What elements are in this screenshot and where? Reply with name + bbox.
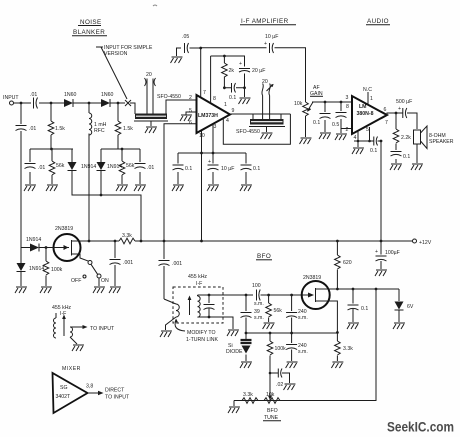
svg-text:DIRECT: DIRECT <box>105 388 125 394</box>
svg-text:AUDIO: AUDIO <box>367 18 389 25</box>
svg-text:.01: .01 <box>147 165 154 171</box>
svg-text:4: 4 <box>354 135 357 141</box>
svg-text:8: 8 <box>213 96 216 102</box>
svg-text:I-F: I-F <box>196 281 202 287</box>
svg-text:20: 20 <box>262 79 268 85</box>
svg-text:s.m.: s.m. <box>254 301 264 307</box>
svg-text:100: 100 <box>252 283 261 289</box>
svg-text:I-F: I-F <box>60 311 66 317</box>
svg-text:BFO: BFO <box>257 253 271 260</box>
svg-text:+12V: +12V <box>419 240 432 246</box>
svg-text:+: + <box>398 106 401 112</box>
svg-text:6V: 6V <box>407 304 414 310</box>
svg-text:10k: 10k <box>294 101 303 107</box>
svg-text:MODIFY TO: MODIFY TO <box>187 330 216 336</box>
svg-text:SeekIC.com: SeekIC.com <box>387 419 454 435</box>
svg-text:10 µF: 10 µF <box>221 166 234 172</box>
svg-text:+: + <box>264 41 267 47</box>
svg-text:5: 5 <box>366 127 369 133</box>
svg-text:1N60: 1N60 <box>64 92 77 98</box>
svg-text:s.m.: s.m. <box>298 349 308 355</box>
svg-text:LM373H: LM373H <box>198 113 218 119</box>
svg-text:1N914: 1N914 <box>29 266 44 272</box>
svg-text:0.1: 0.1 <box>370 148 377 154</box>
svg-text:.05: .05 <box>182 34 189 40</box>
svg-text:10 µF: 10 µF <box>265 34 278 40</box>
svg-text:380N-8: 380N-8 <box>357 111 374 117</box>
svg-text:DIODE: DIODE <box>226 349 243 355</box>
svg-text:+: + <box>208 159 211 165</box>
svg-text:SG: SG <box>60 385 68 391</box>
svg-text:100µF: 100µF <box>385 250 400 256</box>
svg-text:100k: 100k <box>51 267 63 273</box>
svg-text:4: 4 <box>226 118 229 124</box>
svg-text:8: 8 <box>346 104 349 110</box>
svg-text:2: 2 <box>189 95 192 101</box>
svg-text:56k: 56k <box>126 163 135 169</box>
svg-text:56k: 56k <box>56 163 65 169</box>
svg-text:20: 20 <box>146 72 152 78</box>
svg-text:SFO-4550: SFO-4550 <box>157 94 181 100</box>
svg-text:1-TURN LINK: 1-TURN LINK <box>186 337 219 343</box>
svg-text:1N914: 1N914 <box>26 237 41 243</box>
svg-text:10k: 10k <box>266 392 275 398</box>
svg-text:2N3819: 2N3819 <box>55 226 73 232</box>
svg-text:.001: .001 <box>123 260 133 266</box>
svg-text:TUNE: TUNE <box>264 415 279 421</box>
svg-text:3402T: 3402T <box>56 394 72 400</box>
svg-text:.01: .01 <box>38 165 45 171</box>
svg-text:6: 6 <box>189 120 192 126</box>
svg-text:1.5k: 1.5k <box>55 126 65 132</box>
svg-text:.01: .01 <box>30 92 37 98</box>
svg-text:1: 1 <box>370 96 373 102</box>
svg-text:2N3819: 2N3819 <box>303 275 321 281</box>
svg-text:455 kHz: 455 kHz <box>188 274 207 280</box>
svg-text:1: 1 <box>224 102 227 108</box>
svg-text:500 µF: 500 µF <box>396 99 412 105</box>
svg-text:0.1: 0.1 <box>253 166 260 172</box>
svg-text:0.1: 0.1 <box>313 120 320 126</box>
svg-text:RFC: RFC <box>94 128 105 134</box>
svg-text:100k: 100k <box>275 346 287 352</box>
svg-text:6: 6 <box>384 107 387 113</box>
svg-text:s.m.: s.m. <box>298 315 308 321</box>
svg-text:.001: .001 <box>172 261 182 267</box>
svg-text:3.3k: 3.3k <box>122 233 132 239</box>
svg-text:I-F AMPLIFIER: I-F AMPLIFIER <box>241 18 289 25</box>
svg-text:5: 5 <box>189 108 192 114</box>
svg-text:s.m.: s.m. <box>254 315 264 321</box>
svg-text:1.5k: 1.5k <box>123 126 133 132</box>
svg-text:TO INPUT: TO INPUT <box>105 395 130 401</box>
svg-text:7: 7 <box>203 90 206 96</box>
svg-text:INPUT: INPUT <box>3 95 19 101</box>
svg-text:3.3k: 3.3k <box>343 346 353 352</box>
svg-text:0.5: 0.5 <box>332 122 339 128</box>
svg-text:0.1: 0.1 <box>361 306 368 312</box>
svg-text:NOISE: NOISE <box>80 19 102 26</box>
svg-text:VERSION: VERSION <box>104 51 128 57</box>
svg-text:3: 3 <box>214 124 217 130</box>
svg-text:+: + <box>239 61 242 67</box>
svg-text:56k: 56k <box>274 308 283 314</box>
svg-text:BFO: BFO <box>267 408 278 414</box>
svg-text:2: 2 <box>346 127 349 133</box>
svg-text:3: 3 <box>346 95 349 101</box>
svg-text:TO INPUT: TO INPUT <box>90 326 115 332</box>
svg-text:MIXER: MIXER <box>62 366 81 372</box>
svg-text:BLANKER: BLANKER <box>73 29 105 36</box>
svg-text:.01: .01 <box>29 126 36 132</box>
svg-text:.02: .02 <box>276 382 283 388</box>
svg-text:7: 7 <box>385 120 388 126</box>
svg-text:620: 620 <box>343 260 352 266</box>
svg-text:SFO-4550: SFO-4550 <box>236 129 260 135</box>
svg-text:SPEAKER: SPEAKER <box>429 139 454 145</box>
svg-text:+: + <box>375 249 378 255</box>
svg-text:0.1: 0.1 <box>229 95 236 101</box>
svg-text:0.1: 0.1 <box>403 154 410 160</box>
svg-text:9: 9 <box>232 108 235 114</box>
svg-text:ON: ON <box>101 278 109 284</box>
svg-text:1N60: 1N60 <box>101 92 114 98</box>
svg-text:20 µF: 20 µF <box>252 68 265 74</box>
svg-text:2.2k: 2.2k <box>401 135 411 141</box>
svg-text:3.3k: 3.3k <box>243 392 253 398</box>
svg-text:OFF: OFF <box>71 278 81 284</box>
svg-text:LM: LM <box>359 104 367 110</box>
svg-text:2k: 2k <box>229 68 235 74</box>
svg-text:3,8: 3,8 <box>86 384 93 390</box>
svg-text:1N914: 1N914 <box>81 164 96 170</box>
svg-text:0.1: 0.1 <box>185 166 192 172</box>
